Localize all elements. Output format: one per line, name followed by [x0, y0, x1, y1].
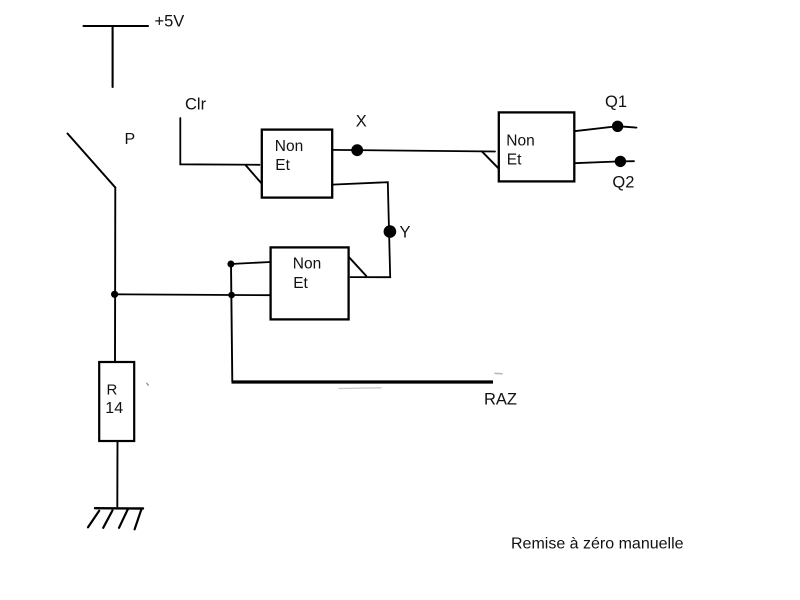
svg-text:R: R [107, 382, 118, 399]
wire node X: U1 output to U2 input [332, 150, 495, 152]
switch P (push button) [68, 134, 116, 188]
nand gate U1 (Non Et) [262, 130, 332, 198]
svg-text:Remise à zéro manuelle: Remise à zéro manuelle [511, 536, 684, 553]
wire junction down to RAZ corner [231, 264, 232, 382]
net RAZ wire (thick) [232, 380, 494, 383]
svg-text:Et: Et [507, 152, 522, 169]
junction dot on lower wire [228, 292, 235, 299]
svg-text:Non: Non [506, 133, 534, 150]
junction node at wire cross [111, 291, 118, 298]
wire U2 output Q1 [574, 126, 636, 131]
wire junction to gate U3 lower input [115, 293, 273, 296]
power +5V symbol [84, 26, 149, 87]
wire U1 lower output to node Y (down to U3 output) [332, 182, 390, 277]
wire U3 output to node Y vertical [351, 276, 391, 278]
stray mark right of R14 [147, 383, 149, 385]
resistor R14 [99, 362, 134, 441]
output hook of gate U3 [349, 257, 366, 276]
junction dot upper input of U3 [227, 261, 234, 268]
nand gate U2 (Non Et) [499, 112, 575, 181]
wire junction to U3 upper input [231, 262, 271, 264]
node Q1 dot [612, 121, 623, 132]
node X dot [351, 144, 363, 156]
input hook of gate U2 [482, 151, 499, 169]
svg-text:Et: Et [275, 157, 290, 174]
smudge near RAZ wire end [495, 372, 502, 375]
nand gate U3 (Non Et) [271, 247, 349, 319]
faint smudge under RAZ wire [339, 387, 381, 390]
svg-text:14: 14 [105, 400, 123, 417]
svg-text:Q1: Q1 [605, 93, 627, 111]
svg-text:Et: Et [293, 275, 308, 292]
wire U2 output Q2 [574, 161, 634, 163]
svg-text:Q2: Q2 [612, 173, 634, 191]
svg-text:+5V: +5V [155, 13, 185, 31]
svg-text:Non: Non [293, 256, 321, 273]
svg-text:Clr: Clr [185, 96, 207, 114]
svg-text:Y: Y [400, 224, 411, 242]
svg-text:RAZ: RAZ [484, 390, 517, 408]
svg-text:P: P [125, 131, 136, 148]
ground symbol [88, 508, 143, 529]
wire Clr input (elbow) [180, 118, 259, 165]
node Q2 dot [615, 156, 626, 167]
svg-text:Non: Non [275, 138, 303, 155]
node Y dot [384, 225, 397, 238]
input hook of gate U1 [246, 165, 267, 185]
svg-text:X: X [356, 113, 367, 131]
wire switch to resistor (vertical) [114, 188, 116, 362]
wire resistor to ground [116, 441, 118, 507]
